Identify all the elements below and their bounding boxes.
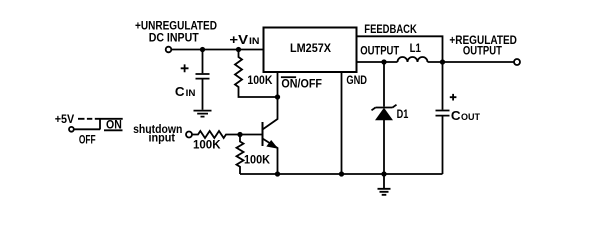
node gnd-rail [339,171,344,176]
ground CIN [194,111,212,117]
switch SW bottom line [74,128,100,130]
output terminal circle [514,59,520,65]
diode D1 cathode bar [372,105,397,111]
shutdown input terminal circle [186,132,192,138]
node 100K pullup tap [236,47,241,52]
switch SW on underline [104,129,123,131]
node D1 tap [381,59,386,64]
node emitter-rail [275,171,280,176]
switch SW bar [99,119,101,130]
svg-text:input: input [149,131,176,145]
input terminal circle [166,47,172,53]
svg-text:+5V: +5V [55,112,74,126]
wire ON/OFF pin [277,72,279,97]
wire bottom rail [240,173,443,175]
transistor Q1 emitter [263,139,278,175]
node output junction [440,59,445,64]
svg-text:IN: IN [186,88,196,98]
wire FEEDBACK [357,36,443,62]
transistor Q1 collector [263,97,278,130]
wire CIN top lead [202,50,204,74]
ground main [378,174,391,195]
inductor L1 [398,57,428,62]
svg-text:OUTPUT: OUTPUT [360,44,400,58]
svg-text:OUTPUT: OUTPUT [463,44,503,58]
svg-text:C: C [175,85,185,99]
wire base [243,134,262,136]
svg-text:100K: 100K [244,153,270,167]
svg-text:IN: IN [249,36,260,46]
resistor R pullup 100K [235,50,275,98]
svg-text:L1: L1 [410,41,422,55]
svg-text:DC INPUT: DC INPUT [149,30,200,44]
node d1-rail [381,171,386,176]
wire OUTPUT right [428,61,515,63]
svg-text:GND: GND [346,73,367,87]
svg-text:LM257X: LM257X [290,41,331,55]
switch SW dashes [78,118,92,120]
svg-text:ON/OFF: ON/OFF [281,77,322,91]
node CIN tap [200,47,205,52]
svg-text:OFF: OFF [79,133,96,147]
svg-text:D1: D1 [397,107,409,121]
node ON/OFF junction [275,94,280,99]
plus sign CIN [181,64,189,72]
wire OUTPUT left [357,61,398,63]
diode D1 triangle [376,109,392,120]
wire input rail [172,49,264,51]
svg-text:OUT: OUT [461,112,481,122]
node base junction [237,132,242,137]
svg-text:100K: 100K [193,138,221,152]
wire D1 top lead [383,62,385,107]
svg-text:ON: ON [106,118,122,132]
transistor Q1 base bar [262,122,264,146]
IC U1 LM257X regulator [264,28,357,73]
switch SW circle [69,127,74,132]
svg-text:+V: +V [229,33,248,47]
wire GND pin [341,72,343,174]
wire D1 bottom lead [383,120,385,174]
transistor Q1 emitter arrow [267,141,277,148]
svg-text:FEEDBACK: FEEDBACK [364,22,417,36]
capacitor COUT [436,111,450,116]
capacitor CIN [196,74,210,79]
wire CIN bottom lead [202,79,204,109]
resistor R series 100K [192,131,240,138]
overline ON/OFF [281,76,296,78]
resistor R pulldown 100K [237,137,244,174]
switch SW top line [95,118,123,120]
wire COUT top lead [442,62,444,110]
svg-text:C: C [451,109,461,123]
wire COUT bottom lead [442,116,444,174]
svg-text:100K: 100K [247,73,272,87]
plus sign COUT [450,94,457,101]
